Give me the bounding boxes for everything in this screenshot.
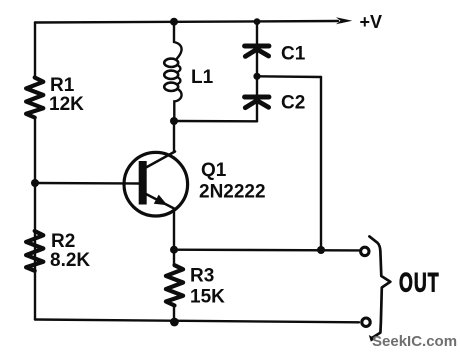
capacitor C1 plate top	[245, 44, 269, 49]
wire left rail upper	[34, 23, 36, 79]
capacitor C1 plate bottom	[245, 50, 268, 56]
svg-text:+V: +V	[360, 12, 383, 32]
transistor Q1 base bar	[139, 161, 147, 205]
junction node top rail C1	[254, 18, 261, 25]
capacitor C2 plate bottom	[245, 101, 268, 107]
wire right vertical	[320, 77, 322, 250]
wire C2 to L1	[174, 120, 257, 123]
svg-text:C2: C2	[281, 93, 305, 114]
inductor L1	[174, 22, 182, 59]
svg-text:C1: C1	[281, 44, 306, 65]
brace tip arrow	[369, 335, 376, 342]
junction node C1-C2	[253, 73, 260, 80]
terminal OUT top	[361, 247, 369, 255]
wire R3 bottom	[173, 306, 175, 323]
svg-text:12K: 12K	[49, 94, 84, 115]
resistor R2	[26, 231, 43, 271]
junction node bottom rail	[170, 318, 179, 327]
wire C1 bottom	[256, 53, 258, 76]
wire collector vertical	[173, 121, 175, 152]
junction node base	[31, 179, 39, 187]
wire left rail lower	[34, 183, 36, 320]
junction node L1 bottom	[170, 117, 178, 125]
svg-text:R2: R2	[51, 231, 75, 252]
svg-text:OUT: OUT	[399, 267, 440, 298]
capacitor C2 plate top	[245, 95, 269, 100]
junction node L1 top	[170, 18, 178, 26]
wire base	[35, 182, 139, 185]
wire R3 top	[173, 250, 175, 266]
svg-text:8.2K: 8.2K	[50, 250, 90, 271]
svg-text:R1: R1	[50, 75, 75, 96]
junction node emitter	[170, 246, 178, 254]
wire bottom rail	[35, 320, 359, 323]
wire emitter vertical	[173, 209, 175, 250]
power +V arrowhead	[336, 17, 352, 24]
resistor R1	[26, 78, 43, 118]
wire C2 bottom	[256, 104, 258, 121]
resistor R3	[166, 265, 183, 305]
wire C junction to right	[257, 75, 321, 78]
wire top rail	[35, 21, 338, 23]
wire left rail middle	[34, 118, 36, 184]
wire C1 top	[256, 22, 258, 44]
junction node output	[317, 246, 325, 254]
brace OUT	[369, 236, 390, 337]
svg-text:L1: L1	[191, 67, 214, 88]
terminal OUT bottom	[362, 318, 370, 326]
svg-text:R3: R3	[190, 266, 214, 287]
svg-text:15K: 15K	[190, 287, 225, 308]
transistor Q1 emitter lead	[146, 194, 175, 209]
svg-text:SeekIC.com: SeekIC.com	[372, 333, 457, 350]
svg-text:2N2222: 2N2222	[199, 182, 266, 203]
wire C2 top	[256, 76, 258, 94]
transistor Q1 collector lead	[146, 152, 175, 168]
wire output top	[174, 248, 359, 251]
transistor Q1 circle	[124, 152, 188, 216]
transistor Q1 emitter arrow	[154, 195, 168, 206]
svg-text:Q1: Q1	[201, 160, 227, 181]
